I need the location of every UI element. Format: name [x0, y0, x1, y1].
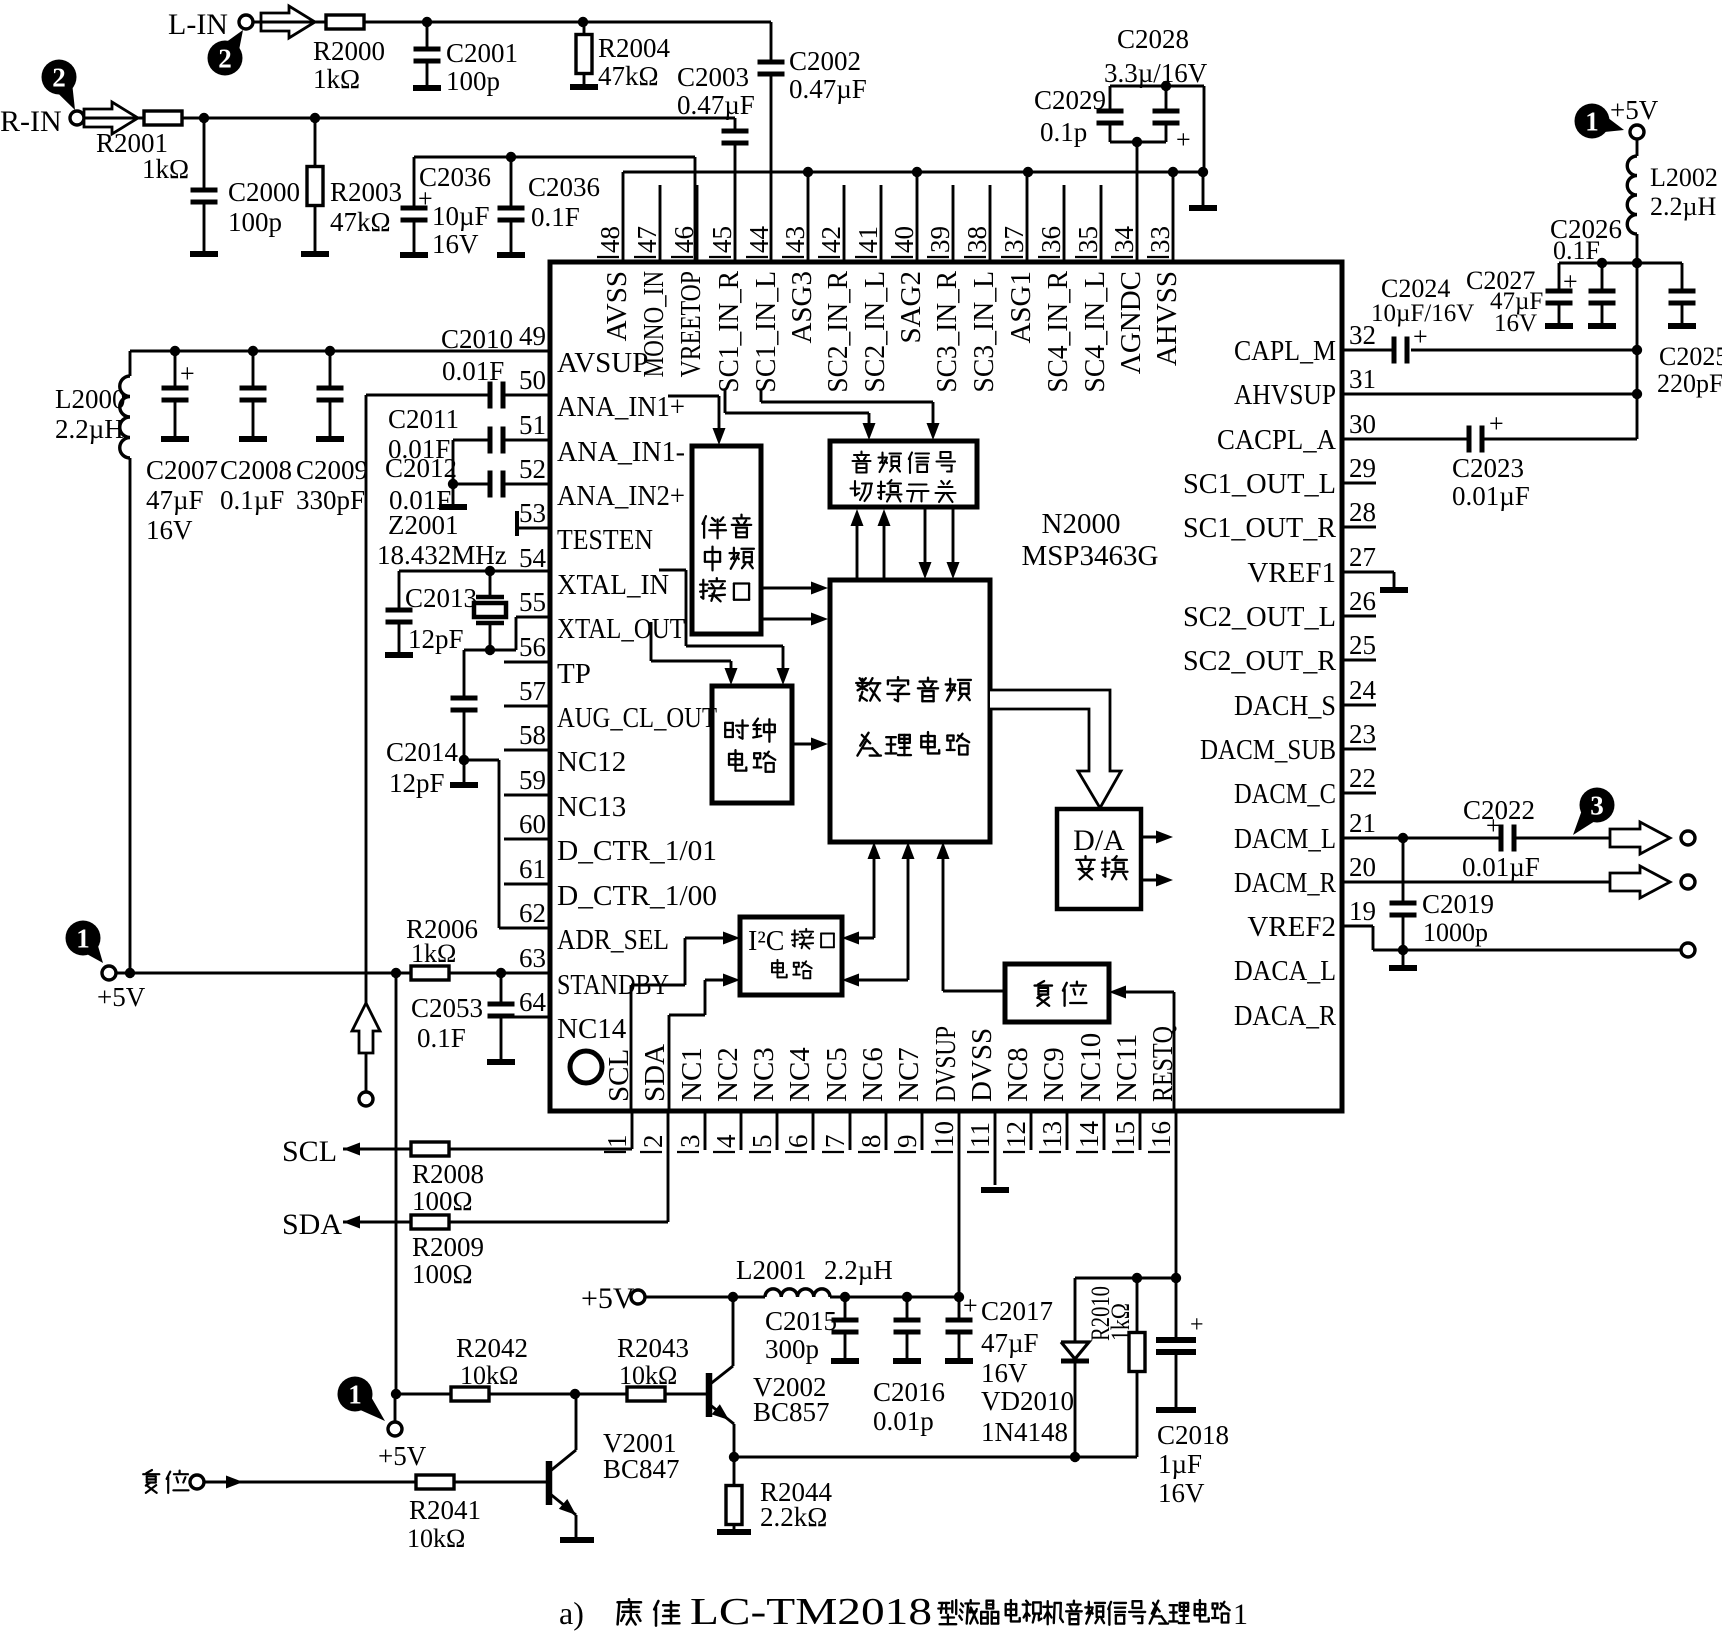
pin 11 name DVSS — [966, 1028, 998, 1102]
junction AGND 40 — [912, 167, 922, 177]
junction +5V bottom — [391, 1389, 401, 1399]
label +5V top right — [1610, 95, 1659, 125]
svg-text:53: 53 — [519, 498, 546, 528]
pin 53 TESTEN tie — [517, 511, 550, 536]
svg-text:2.2µH: 2.2µH — [1650, 192, 1716, 221]
svg-text:10µF/16V: 10µF/16V — [1371, 300, 1474, 327]
pin 35 stub — [1100, 185, 1103, 262]
pin 52 number — [519, 454, 546, 484]
pin name DACA_R — [1234, 1000, 1337, 1032]
svg-text:SC4_IN_L: SC4_IN_L — [1079, 271, 1111, 393]
junction C2000 — [199, 113, 209, 123]
label C2009 — [296, 455, 368, 515]
pin 55 number — [519, 587, 546, 617]
pin 55 name XTAL_OUT — [557, 613, 685, 645]
pin 60 name D_CTR_1/01 — [557, 835, 717, 867]
pin 15 stub — [1139, 1111, 1142, 1150]
wire C2028 bottom — [1110, 141, 1166, 144]
capacitor C2028 — [1153, 86, 1191, 154]
pin 23 name DACM_SUB — [1200, 734, 1336, 766]
svg-text:R2008: R2008 — [412, 1159, 484, 1189]
label C2000 — [228, 177, 300, 237]
capacitor C2010 — [366, 382, 550, 409]
svg-text:C2012: C2012 — [385, 453, 457, 483]
svg-text:2: 2 — [218, 44, 232, 74]
svg-text:1: 1 — [348, 1380, 362, 1410]
svg-text:1000p: 1000p — [1423, 918, 1488, 947]
pin 42 stub — [843, 185, 846, 262]
pin 13 name NC9 — [1038, 1047, 1070, 1102]
pin 63 number — [519, 943, 546, 973]
inductor L2000 — [120, 376, 130, 458]
capacitor C2014 — [451, 698, 478, 760]
wire C2036 net to pin 46 — [414, 157, 695, 262]
wire L-IN line — [253, 21, 771, 24]
wire XTAL_OUT to clock block — [651, 622, 738, 685]
label C2003 — [677, 62, 755, 120]
transistor V2001 BC847 — [549, 1394, 576, 1539]
wire L2002 down — [1636, 234, 1639, 439]
svg-text:31: 31 — [1349, 364, 1376, 394]
svg-text:63: 63 — [519, 943, 546, 973]
resistor R2042 — [451, 1387, 489, 1401]
pin 38 number — [962, 226, 992, 257]
pin 26 stub — [1342, 615, 1376, 618]
junction DACM_L — [1398, 833, 1408, 843]
svg-text:AHVSS: AHVSS — [1151, 271, 1183, 366]
svg-text:36: 36 — [1036, 226, 1066, 253]
capacitor C2018 — [1156, 1278, 1204, 1409]
pin 1 stub — [631, 1111, 634, 1149]
resistor R2003 — [307, 118, 323, 254]
svg-text:+: + — [1563, 267, 1578, 296]
wire DACM_R — [1342, 881, 1610, 884]
pin 64 number — [519, 987, 547, 1017]
svg-text:57: 57 — [519, 676, 546, 706]
label R2003 — [330, 177, 402, 237]
label C2012 — [385, 453, 457, 515]
pin 37 name ASG1 — [1005, 271, 1037, 344]
wire diode top row — [1075, 1277, 1176, 1280]
pin 36 name SC4_IN_R — [1042, 270, 1074, 392]
svg-text:55: 55 — [519, 587, 546, 617]
junction AGND right end — [1198, 167, 1208, 177]
pin 37 stub — [1026, 172, 1029, 262]
svg-text:1N4148: 1N4148 — [981, 1417, 1068, 1447]
pin 31 name AHVSUP — [1234, 379, 1336, 411]
label R2008 — [412, 1159, 484, 1216]
pin 8 number — [856, 1135, 886, 1153]
wire SCL internal to I2C block — [631, 932, 740, 1112]
pin 44 stub — [771, 261, 774, 262]
svg-text:40: 40 — [889, 226, 919, 253]
pin 3 stub — [704, 1111, 707, 1150]
resistor R2001 — [144, 111, 182, 125]
svg-text:45: 45 — [707, 226, 737, 253]
pin 59 number — [519, 765, 546, 795]
svg-text:41: 41 — [853, 226, 883, 253]
svg-text:ASG3: ASG3 — [786, 271, 818, 344]
resistor R2043 — [627, 1387, 665, 1401]
junction C2036b — [506, 152, 516, 162]
pin 5 stub — [776, 1111, 779, 1150]
signal arrow DACM_R out — [1610, 866, 1670, 898]
svg-text:DACM_R: DACM_R — [1234, 867, 1337, 899]
pin 44 number — [744, 226, 774, 258]
label SDA — [282, 1208, 342, 1241]
svg-text:N2000: N2000 — [1042, 508, 1121, 540]
junction C2001 — [422, 17, 432, 27]
svg-text:R-IN: R-IN — [0, 105, 62, 138]
svg-text:62: 62 — [519, 898, 546, 928]
wire AHVSUP — [1342, 393, 1637, 396]
pin 36 stub — [1063, 185, 1066, 262]
svg-text:D_CTR_1/01: D_CTR_1/01 — [557, 835, 717, 867]
junction C2008 — [248, 346, 258, 356]
terminal +5V top right — [1630, 125, 1644, 139]
wire XTAL_IN net — [399, 570, 550, 573]
pin 51 number — [519, 410, 546, 440]
svg-text:DVSUP: DVSUP — [930, 1026, 962, 1102]
svg-text:47kΩ: 47kΩ — [598, 61, 659, 91]
svg-text:SDA: SDA — [639, 1044, 671, 1102]
pin 12 number — [1001, 1121, 1031, 1152]
label C2036 0.1F — [528, 172, 600, 232]
pin 42 name SC2_IN_R — [822, 270, 854, 392]
svg-text:SC2_IN_R: SC2_IN_R — [822, 270, 854, 392]
ground C2027 — [1545, 323, 1573, 329]
pin 29 number — [1349, 453, 1376, 483]
svg-text:44: 44 — [744, 226, 774, 254]
svg-text:51: 51 — [519, 410, 546, 440]
svg-text:SC1_IN_L: SC1_IN_L — [750, 271, 782, 393]
svg-text:C2015: C2015 — [765, 1306, 837, 1336]
wire reset input — [204, 1476, 547, 1489]
svg-text:16V: 16V — [432, 229, 479, 259]
label R2000 — [313, 36, 385, 94]
pin 47 number — [632, 226, 662, 257]
label L2000 — [55, 384, 126, 444]
svg-text:8: 8 — [856, 1135, 886, 1149]
capacitor C2013 — [386, 571, 413, 655]
label C2053 — [411, 993, 483, 1053]
pin 13 number — [1037, 1121, 1067, 1152]
pin name DACA_L — [1234, 955, 1336, 987]
pin 57 number — [519, 676, 546, 706]
pin 14 name NC10 — [1075, 1033, 1107, 1102]
label C2018 — [1157, 1420, 1229, 1508]
svg-text:10kΩ: 10kΩ — [407, 1524, 465, 1553]
wire I2C to DSP link 2 — [842, 842, 915, 987]
svg-text:VREETOP: VREETOP — [675, 271, 707, 377]
capacitor C2026 — [1589, 263, 1616, 326]
svg-text:28: 28 — [1349, 497, 1376, 527]
ground C2017 — [945, 1358, 973, 1364]
pin 3 name NC1 — [676, 1047, 708, 1102]
pin 42 number — [816, 226, 846, 257]
terminal DACM_R out — [1681, 875, 1695, 889]
svg-text:SC1_IN_R: SC1_IN_R — [713, 270, 745, 392]
pin 38 name SC3_IN_L — [968, 271, 1000, 393]
svg-text:R2004: R2004 — [598, 33, 671, 63]
svg-text:59: 59 — [519, 765, 546, 795]
svg-text:+: + — [1190, 1312, 1204, 1338]
junction AGND 43 — [803, 167, 813, 177]
svg-text:2: 2 — [638, 1135, 668, 1149]
svg-text:NC7: NC7 — [893, 1047, 925, 1102]
junction AGNDC pin34 — [1132, 137, 1142, 147]
arrow D/A to DACM_R — [1141, 874, 1173, 887]
pin 6 number — [783, 1135, 813, 1153]
svg-text:61: 61 — [519, 854, 546, 884]
capacitor C2025 — [1669, 263, 1696, 326]
pin 28 name SC1_OUT_R — [1183, 512, 1337, 544]
terminal DACM_L out — [1681, 831, 1695, 845]
svg-text:DVSS: DVSS — [966, 1028, 998, 1102]
label L2002 — [1650, 163, 1718, 221]
svg-text:C2016: C2016 — [873, 1377, 945, 1407]
label VD2010 — [981, 1386, 1074, 1447]
junction VREF2 C2019 — [1398, 945, 1408, 955]
svg-text:+: + — [1176, 125, 1191, 154]
wire XTAL_IN to clock block — [659, 570, 790, 685]
svg-text:50: 50 — [519, 365, 546, 395]
arrow D/A to DACM_L — [1141, 831, 1173, 844]
wire AGND line — [623, 171, 1203, 174]
pin 16 number — [1146, 1121, 1176, 1152]
svg-text:2.2µH: 2.2µH — [55, 414, 124, 444]
pin 62 number — [519, 898, 546, 928]
svg-text:12: 12 — [1001, 1121, 1031, 1148]
svg-text:CACPL_A: CACPL_A — [1217, 424, 1336, 456]
pin 34 name ΛGNDC — [1115, 271, 1147, 374]
junction AHVSUP — [1632, 389, 1642, 399]
pin 54 name XTAL_IN — [557, 569, 669, 601]
label +5V bottom — [378, 1441, 427, 1471]
label R2001 — [96, 128, 189, 184]
svg-text:BC847: BC847 — [603, 1454, 680, 1484]
capacitor C2022 — [1486, 811, 1514, 852]
pin 27 name VREF1 — [1247, 557, 1336, 589]
svg-text:VREF2: VREF2 — [1247, 911, 1336, 943]
label C2016 — [873, 1377, 945, 1436]
pin 43 name ASG3 — [786, 271, 818, 344]
pin 2 number — [638, 1135, 668, 1153]
svg-text:C2017: C2017 — [981, 1296, 1053, 1326]
svg-text:C2014: C2014 — [386, 737, 459, 767]
capacitor C2015 — [832, 1297, 859, 1360]
svg-text:30: 30 — [1349, 409, 1376, 439]
svg-text:16V: 16V — [146, 515, 193, 545]
junction C2016 — [902, 1292, 912, 1302]
pin 64 stub — [504, 1016, 550, 1019]
svg-text:3: 3 — [675, 1135, 705, 1149]
svg-text:10kΩ: 10kΩ — [460, 1361, 518, 1390]
ground C2019 — [1389, 950, 1417, 968]
svg-text:25: 25 — [1349, 630, 1376, 660]
arrow clock to DSP — [792, 738, 828, 751]
arrow switch to DSP down 2 — [947, 507, 960, 579]
wire C2028 top — [1110, 86, 1204, 172]
wire ANA_IN1+ to sound-IF block — [668, 396, 726, 445]
svg-text:ANA_IN1-: ANA_IN1- — [557, 436, 685, 468]
svg-text:3: 3 — [1590, 791, 1604, 821]
terminal reset input — [190, 1475, 204, 1489]
wire AVSUP rail — [130, 351, 550, 376]
resistor R2006 — [411, 966, 449, 980]
capacitor C2027 — [1546, 263, 1578, 326]
svg-text:C2024: C2024 — [1381, 274, 1450, 303]
resistor R2004 — [576, 22, 592, 87]
pin 26 number — [1349, 586, 1376, 616]
pin 57 name AUG_CL_OUT — [557, 702, 717, 734]
ground C2036 10uF — [400, 252, 428, 258]
pin 50 number — [519, 365, 546, 395]
svg-text:L-IN: L-IN — [168, 8, 228, 41]
wire L2000 down to +5V — [129, 458, 132, 973]
pin 22 name DACM_C — [1234, 778, 1336, 810]
svg-text:BC857: BC857 — [753, 1397, 830, 1427]
pin 25 number — [1349, 630, 1376, 660]
svg-text:100p: 100p — [228, 207, 282, 237]
block clock circuit 时钟电路 — [712, 686, 792, 803]
pin 16 stub — [1175, 1111, 1178, 1278]
pin 30 number — [1349, 409, 1376, 439]
junction C2009 — [325, 346, 335, 356]
junction V2002 emitter top — [728, 1292, 738, 1302]
junction rail C2026 — [1597, 258, 1607, 268]
svg-text:22: 22 — [1349, 763, 1376, 793]
label R2042 — [456, 1333, 528, 1390]
svg-text:R2003: R2003 — [330, 177, 402, 207]
IC N2000 MSP3463G body — [550, 262, 1342, 1111]
IC label MSP3463G — [1022, 540, 1159, 572]
pin 28 stub — [1342, 526, 1376, 529]
pin 56 number — [519, 632, 546, 662]
balloon 1 bottom — [338, 1377, 386, 1422]
capacitor C2023 — [1469, 409, 1504, 453]
wire base row — [396, 1393, 706, 1396]
svg-text:0.01µF: 0.01µF — [1452, 481, 1530, 511]
svg-text:0.1F: 0.1F — [1553, 236, 1600, 265]
svg-text:18.432MHz: 18.432MHz — [377, 540, 507, 570]
signal arrow L-IN — [261, 6, 315, 38]
wire +5V standby — [116, 972, 550, 975]
svg-text:ADR_SEL: ADR_SEL — [557, 924, 669, 956]
svg-text:100Ω: 100Ω — [412, 1186, 473, 1216]
svg-text:DACM_L: DACM_L — [1234, 823, 1336, 855]
pin 39 stub — [952, 185, 955, 262]
svg-text:SC2_OUT_R: SC2_OUT_R — [1183, 645, 1337, 677]
label C2002 — [789, 46, 867, 104]
pin 5 number — [747, 1135, 777, 1153]
wire +5V branch down — [395, 973, 398, 1394]
label C2011 — [388, 404, 459, 464]
pin 41 name SC2_IN_L — [859, 271, 891, 393]
pin 25 stub — [1342, 659, 1376, 662]
ground V2001 emitter — [560, 1537, 594, 1543]
junction C2012 — [448, 479, 458, 489]
svg-text:NC8: NC8 — [1002, 1047, 1034, 1102]
svg-text:37: 37 — [999, 226, 1029, 253]
svg-text:a): a) — [559, 1595, 584, 1631]
wire R-IN line — [84, 117, 735, 120]
svg-text:7: 7 — [820, 1135, 850, 1149]
pin 20 number — [1349, 852, 1376, 882]
wire DACM_L — [1342, 837, 1610, 840]
pin 10 stub — [958, 1111, 961, 1297]
label C2036 10uF — [419, 162, 491, 259]
svg-text:C2008: C2008 — [220, 455, 292, 485]
svg-text:10kΩ: 10kΩ — [619, 1361, 677, 1390]
pin 20 name DACM_R — [1234, 867, 1337, 899]
wire +5V bottom link — [394, 1394, 397, 1422]
junction C2053 — [496, 968, 506, 978]
pin 59 name NC13 — [557, 791, 626, 823]
svg-text:DACA_L: DACA_L — [1234, 955, 1336, 987]
svg-text:SC3_IN_L: SC3_IN_L — [968, 271, 1000, 393]
pin 31 number — [1349, 364, 1376, 394]
label V2002 — [753, 1372, 830, 1427]
svg-text:56: 56 — [519, 632, 546, 662]
pin 34 stub — [1136, 142, 1139, 262]
block sound-IF interface 伴音中频接口 — [692, 446, 761, 634]
junction C2015 — [840, 1292, 850, 1302]
block I2C interface I²C接口电路 — [740, 917, 842, 995]
hollow arrow on C2010 drop — [352, 1003, 380, 1053]
balloon 1 left — [66, 921, 104, 964]
svg-text:SDA: SDA — [282, 1208, 342, 1241]
signal arrow R-IN — [84, 102, 138, 134]
capacitor C2016 — [894, 1297, 921, 1360]
svg-text:4: 4 — [711, 1134, 741, 1148]
pin 27 number — [1349, 542, 1376, 572]
label L2001 — [736, 1255, 893, 1285]
svg-text:C2007: C2007 — [146, 455, 218, 485]
pin 21 number — [1349, 808, 1376, 838]
pin 2 stub — [667, 1111, 670, 1222]
IC pin-1 marker circle — [570, 1051, 602, 1083]
label R2009 — [412, 1232, 484, 1289]
svg-text:0.47µF: 0.47µF — [789, 74, 867, 104]
pin 49 name AVSUP — [557, 347, 648, 379]
svg-text:16V: 16V — [1494, 310, 1537, 337]
arrow switch to DSP down 1 — [919, 507, 932, 579]
svg-text:12pF: 12pF — [389, 768, 445, 798]
diode VD2010 1N4148 — [1061, 1278, 1089, 1457]
pin 16 name RESTQ — [1147, 1026, 1179, 1102]
capacitor C2000 — [191, 118, 218, 254]
svg-text:39: 39 — [925, 226, 955, 253]
pin 24 name DACH_S — [1234, 690, 1336, 722]
arrow switch to DSP up 1 — [851, 509, 864, 580]
resistor R2041 — [416, 1475, 454, 1489]
ground R2003 — [301, 251, 329, 257]
junction AGND 33 — [1168, 167, 1178, 177]
pin 12 stub — [1030, 1111, 1033, 1150]
svg-text:NC13: NC13 — [557, 791, 626, 823]
pin 33 number — [1145, 226, 1175, 257]
svg-text:13: 13 — [1037, 1121, 1067, 1148]
wire C2011 to C2012 — [452, 440, 455, 484]
caption — [559, 1591, 1248, 1631]
svg-text:2.2kΩ: 2.2kΩ — [760, 1502, 827, 1532]
terminal L-IN — [239, 15, 253, 29]
svg-text:1kΩ: 1kΩ — [313, 64, 360, 94]
block digital audio processor 数字音频处理电路 — [830, 580, 990, 842]
svg-text:R2041: R2041 — [409, 1495, 481, 1525]
pin 30 name CACPL_A — [1217, 424, 1336, 456]
